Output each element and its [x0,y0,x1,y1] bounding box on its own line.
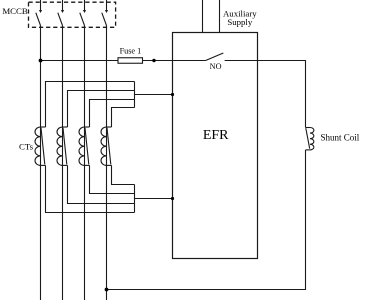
svg-text:Fuse 1: Fuse 1 [120,46,142,55]
wire neutral L4 vertical [106,26,108,300]
MCCB enclosure (dashed box) [29,2,116,27]
CT coil on L4 [101,127,112,165]
MCCB pole 1 switch [36,0,42,26]
CT4 secondary top wire [112,108,135,128]
CT2 secondary bottom wire [68,165,135,203]
CT coil on L1 [35,127,46,165]
CT4 secondary bottom wire [112,165,135,184]
CT1 secondary bottom wire [46,165,135,212]
wire L1 to fuse [41,60,119,62]
CT coil on L2 [57,127,68,165]
wire shunt coil return to neutral [107,150,306,290]
CT1 secondary top wire [46,82,135,128]
NO contact blade [206,53,224,61]
MCCB pole 2 switch [58,0,64,26]
MCCB pole 4 switch [102,0,108,26]
fuse F1 body [118,58,143,64]
CT secondary bottom bus [134,185,136,213]
svg-text:Shunt Coil: Shunt Coil [321,132,360,142]
junction dot on fuse output wire [152,59,155,62]
CT3 secondary bottom wire [90,165,135,193]
auxiliary supply stub 1 [202,0,204,33]
wire phase L2 vertical [62,26,64,300]
auxiliary supply stub 2 [219,0,221,33]
junction dot L1/fuse wire [39,59,43,63]
shunt coil [306,128,314,150]
CT3 secondary top wire [90,100,135,128]
wire CT bottom bus to EFR [135,198,173,200]
junction dot at EFR input bottom [171,197,174,200]
wire NO contact to shunt coil branch [225,61,306,128]
svg-text:NO: NO [210,62,222,71]
EFR box [173,33,258,259]
svg-text:CTs: CTs [19,142,34,152]
svg-text:EFR: EFR [203,128,229,143]
svg-text:Supply: Supply [227,17,253,27]
junction dot return/neutral [105,288,109,292]
wire CT top bus to EFR [135,94,173,96]
wire phase L1 vertical [40,26,42,300]
wire fuse to EFR [143,60,206,62]
CT2 secondary top wire [68,91,135,128]
wire phase L3 vertical [84,26,86,300]
svg-text:MCCB: MCCB [2,6,28,16]
CT secondary top bus [134,82,136,108]
MCCB pole 3 switch [80,0,86,26]
junction dot at EFR input top [171,93,174,96]
CT coil on L3 [79,127,90,165]
